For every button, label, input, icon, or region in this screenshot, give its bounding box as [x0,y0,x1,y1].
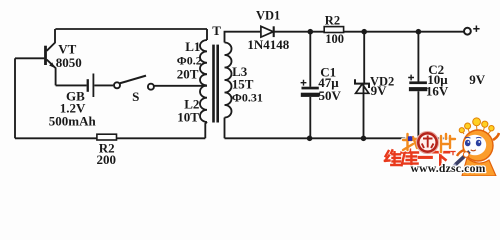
wire top-left rail [55,28,207,30]
switch S blade [120,76,146,84]
resistor R2 body [324,27,343,33]
wire bottom-right rail [225,137,451,139]
transistor VT collector lead [47,29,55,51]
resistor R1 body (labelled R2 200) [97,134,117,140]
inductor L2 winding [200,86,207,123]
node junction dot C2 bottom (blue) [408,136,413,141]
wire L2 bottom jog [205,122,207,138]
battery GB short thick plate [87,79,89,92]
zener VD2 triangle [356,84,369,93]
svg-text:20T: 20T [177,66,199,81]
watermark red text 维库一下 white halo [385,150,455,166]
transistor Q1 VT base bar [44,46,47,65]
inductor L1 winding [200,40,207,86]
capacitor C1 top lead [309,32,311,87]
wire bottom-left rail segment A [15,137,97,139]
diode VD1 cathode bar [273,26,275,37]
svg-text:8050: 8050 [56,55,82,70]
watermark mascot crown balls [459,118,494,134]
output plus sign [473,26,479,32]
svg-text:www.dzsc.com: www.dzsc.com [411,162,486,175]
watermark mascot pen [455,152,470,166]
node junction dot VD2 bottom [361,136,367,142]
wire emitter to battery [56,84,87,86]
svg-text:16V: 16V [426,84,449,99]
zener VD2 bottom lead [363,85,365,139]
transformer secondary top lead [225,32,261,43]
watermark mascot right arm [493,133,499,140]
transformer T core bar 2 [216,45,219,123]
svg-text:500mAh: 500mAh [49,114,97,129]
watermark mascot left arm [457,150,464,156]
capacitor C1 plus mark [301,80,307,86]
wire base lead [15,57,44,59]
diode VD1 triangle [261,26,273,37]
transformer T primary top lead [206,29,208,40]
wire top rail diode to terminal [274,31,464,33]
capacitor C2 bottom lead [417,91,419,138]
zener VD2 cathode bar with bent ends [355,79,369,88]
watermark mascot eyes [465,140,471,147]
svg-text:200: 200 [97,152,117,167]
svg-text:10T: 10T [177,110,199,125]
node blue junction marker redraw [408,136,412,141]
svg-text:9V: 9V [371,83,388,98]
watermark mascot head [463,130,493,161]
svg-text:100: 100 [325,32,344,46]
node junction dot C1 bottom [307,136,313,142]
transformer T core bar 1 [212,45,215,123]
svg-text:T: T [212,23,221,38]
switch S right contact [148,84,154,90]
node junction dot VD2 top [361,29,367,35]
svg-text:1N4148: 1N4148 [247,37,289,52]
transistor VT emitter lead [47,60,56,86]
svg-text:S: S [132,89,139,104]
capacitor C2 plus mark [408,75,414,81]
svg-text:L1: L1 [185,39,200,54]
capacitor C2 bottom plate [409,87,427,91]
node junction dot C1 top [308,29,314,35]
switch S left contact [114,82,120,88]
transformer secondary bottom lead [224,118,226,139]
watermark zhaoxinpian 找 white halo [403,134,455,152]
output terminal plus circle [464,28,471,35]
transistor VT emitter arrow [49,62,55,68]
node junction dot C2 top [416,29,422,35]
svg-text:50V: 50V [319,88,342,103]
capacitor C1 top plate [302,87,319,90]
inductor L3 winding [225,43,232,118]
wire battery to switch [94,84,113,86]
watermark mascot brows [465,136,481,139]
capacitor C1 bottom lead [309,97,311,138]
watermark mascot body [462,158,496,176]
capacitor C2 top lead [417,32,419,82]
wire bottom-left rail segment B [117,137,206,139]
battery GB long plate [92,74,94,98]
watermark red text 维库一下 strokes [385,150,455,166]
svg-text:R2: R2 [325,13,340,27]
watermark logo red circle 芯 [417,132,439,154]
wire left vertical (base feedback) [14,58,16,138]
wire switch to transformer tap [154,85,207,87]
svg-text:9V: 9V [469,72,486,87]
capacitor C1 bottom plate [301,93,320,97]
watermark logo 找 [403,134,419,150]
svg-text:Φ0.31: Φ0.31 [232,91,263,105]
capacitor C2 top plate [409,81,427,84]
svg-text:VD1: VD1 [256,8,280,22]
watermark mascot mouth [471,150,476,151]
svg-text:15T: 15T [232,77,254,92]
zener diode VD2 top lead [363,32,365,84]
watermark logo 片 [441,134,455,152]
svg-text:Φ0.2: Φ0.2 [177,53,202,67]
watermark mascot face [464,135,486,156]
